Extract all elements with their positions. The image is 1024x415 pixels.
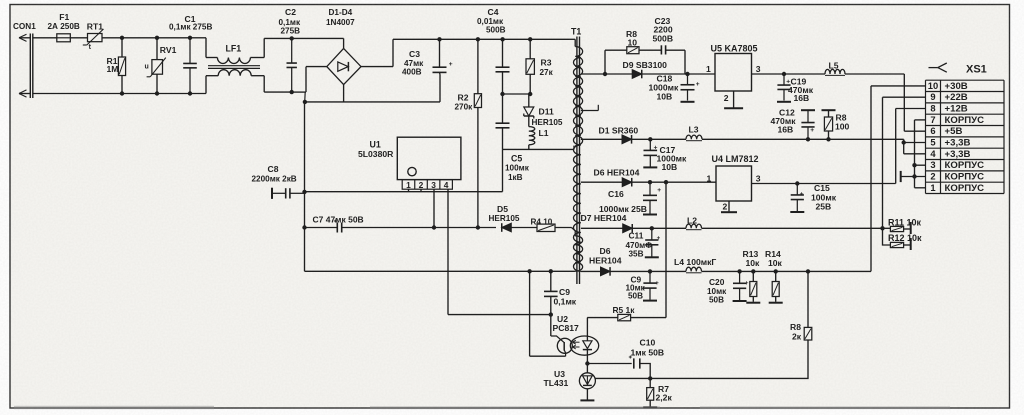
svg-text:9: 9: [930, 91, 935, 102]
svg-text:C16: C16: [608, 189, 624, 199]
svg-text:2А 250В: 2А 250В: [48, 22, 80, 31]
svg-text:C9: C9: [559, 287, 570, 297]
svg-text:C5: C5: [511, 154, 522, 164]
svg-text:RT1: RT1: [87, 21, 103, 31]
svg-text:R2: R2: [458, 92, 469, 102]
svg-text:1: 1: [707, 173, 712, 183]
svg-text:PC817: PC817: [553, 323, 579, 333]
svg-text:L2: L2: [687, 215, 697, 225]
svg-text:Т1: Т1: [571, 27, 581, 37]
svg-text:3: 3: [431, 180, 436, 190]
svg-text:5L0380R: 5L0380R: [358, 149, 394, 159]
svg-text:2к: 2к: [792, 331, 802, 341]
svg-text:КОРПУС: КОРПУС: [945, 172, 985, 183]
svg-text:25В: 25В: [816, 202, 832, 212]
svg-text:+3,3В: +3,3В: [945, 149, 971, 160]
svg-text:+: +: [657, 235, 661, 242]
svg-text:R12 10к: R12 10к: [888, 233, 922, 243]
svg-text:C11: C11: [629, 231, 644, 241]
svg-text:U4 LM7812: U4 LM7812: [712, 154, 759, 164]
svg-text:D1 SR360: D1 SR360: [599, 125, 639, 135]
svg-text:+: +: [800, 191, 804, 198]
svg-text:1М: 1М: [107, 64, 119, 74]
svg-text:R4 10: R4 10: [531, 217, 553, 226]
svg-text:+22В: +22В: [945, 92, 968, 103]
svg-text:D1-D4: D1-D4: [329, 8, 353, 17]
svg-text:35В: 35В: [629, 250, 644, 259]
svg-text:100: 100: [835, 121, 850, 131]
svg-text:10: 10: [928, 80, 938, 91]
svg-text:+: +: [654, 145, 658, 152]
svg-text:XS1: XS1: [966, 63, 987, 75]
svg-text:D6 HER104: D6 HER104: [594, 167, 640, 177]
svg-text:0,1мк 275В: 0,1мк 275В: [169, 22, 212, 31]
svg-text:+: +: [449, 61, 453, 68]
svg-text:7: 7: [930, 114, 935, 125]
svg-text:2: 2: [724, 93, 729, 103]
svg-text:C7 47мк 50В: C7 47мк 50В: [313, 214, 364, 224]
svg-text:CON1: CON1: [13, 22, 36, 31]
svg-text:R5 1к: R5 1к: [613, 305, 636, 315]
svg-text:5: 5: [930, 137, 935, 148]
svg-text:8: 8: [930, 103, 935, 114]
svg-text:50В: 50В: [709, 296, 724, 305]
svg-text:C8: C8: [268, 164, 279, 174]
svg-text:+: +: [655, 280, 659, 287]
svg-text:1N4007: 1N4007: [326, 18, 355, 27]
svg-text:D9 SB3100: D9 SB3100: [623, 60, 668, 70]
svg-text:D11: D11: [539, 107, 555, 117]
svg-text:16В: 16В: [794, 93, 810, 103]
svg-text:C20: C20: [709, 277, 725, 287]
svg-text:HER105: HER105: [489, 214, 520, 223]
svg-text:100мк: 100мк: [505, 164, 530, 173]
svg-text:КОРПУС: КОРПУС: [945, 115, 985, 126]
svg-text:10: 10: [628, 38, 638, 48]
svg-text:1мк 50В: 1мк 50В: [631, 348, 665, 358]
svg-text:+3,3В: +3,3В: [945, 138, 971, 149]
svg-text:u: u: [145, 64, 149, 71]
svg-text:L5: L5: [829, 60, 839, 70]
svg-text:2200мк 2кВ: 2200мк 2кВ: [252, 175, 297, 184]
svg-text:+5В: +5В: [945, 126, 963, 137]
svg-text:27к: 27к: [540, 68, 554, 77]
svg-text:TL431: TL431: [544, 378, 569, 388]
svg-text:2,2к: 2,2к: [656, 392, 673, 402]
svg-text:2: 2: [930, 171, 935, 182]
svg-text:+: +: [696, 81, 700, 88]
svg-text:2: 2: [419, 180, 424, 190]
svg-text:+30В: +30В: [945, 81, 968, 92]
svg-text:D5: D5: [497, 204, 508, 214]
svg-text:500В: 500В: [653, 33, 674, 43]
svg-text:U1: U1: [370, 140, 381, 150]
svg-text:КОРПУС: КОРПУС: [945, 183, 985, 194]
svg-text:U5 KA7805: U5 KA7805: [711, 44, 758, 54]
svg-text:275В: 275В: [281, 26, 301, 35]
svg-text:D7 HER104: D7 HER104: [581, 213, 627, 223]
svg-text:+: +: [810, 127, 814, 134]
svg-text:10к: 10к: [768, 258, 783, 268]
svg-text:HER104: HER104: [589, 255, 622, 265]
svg-text:1кВ: 1кВ: [508, 173, 523, 182]
svg-text:6: 6: [930, 125, 935, 136]
svg-text:10В: 10В: [657, 91, 673, 101]
svg-text:L4 100мкГ: L4 100мкГ: [674, 257, 716, 267]
svg-text:C10: C10: [640, 337, 656, 347]
svg-text:2: 2: [723, 202, 728, 212]
svg-text:+: +: [657, 187, 661, 194]
svg-text:0,1мк: 0,1мк: [554, 297, 577, 307]
svg-text:3: 3: [930, 159, 935, 170]
svg-text:3: 3: [756, 173, 761, 183]
svg-text:1: 1: [706, 64, 711, 74]
svg-text:C2: C2: [285, 7, 296, 17]
svg-text:1: 1: [930, 182, 935, 193]
svg-text:C4: C4: [488, 7, 499, 17]
svg-text:R11 10к: R11 10к: [888, 217, 922, 227]
svg-text:400В: 400В: [402, 68, 422, 77]
svg-text:HER105: HER105: [532, 118, 563, 127]
svg-text:F1: F1: [59, 12, 69, 22]
svg-text:+12В: +12В: [945, 104, 968, 115]
svg-text:L3: L3: [689, 125, 699, 135]
svg-text:+: +: [745, 280, 749, 287]
svg-text:270к: 270к: [455, 103, 474, 112]
svg-text:R3: R3: [541, 58, 552, 68]
svg-text:4: 4: [930, 148, 936, 159]
svg-text:16В: 16В: [778, 124, 794, 134]
svg-text:C3: C3: [409, 49, 420, 59]
svg-text:1: 1: [406, 180, 411, 190]
svg-text:10В: 10В: [662, 162, 678, 172]
svg-text:500В: 500В: [486, 26, 506, 35]
svg-text:L1: L1: [539, 128, 549, 138]
svg-text:3: 3: [756, 64, 761, 74]
svg-text:RV1: RV1: [160, 45, 177, 55]
svg-text:4: 4: [444, 180, 449, 190]
svg-text:10к: 10к: [746, 258, 761, 268]
svg-text:КОРПУС: КОРПУС: [945, 160, 985, 171]
svg-text:LF1: LF1: [226, 44, 242, 54]
svg-text:50В: 50В: [628, 292, 643, 301]
